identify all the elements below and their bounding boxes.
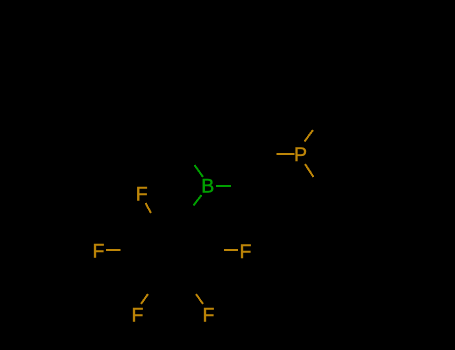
svg-text:F: F	[93, 241, 105, 263]
wire: bond stub F5-C6	[224, 249, 238, 251]
wire: bond stub P-CH2 (down-right)	[305, 164, 314, 177]
wire: bond stub F1-C2	[146, 203, 152, 213]
svg-text:F: F	[203, 305, 215, 327]
svg-text:F: F	[132, 305, 144, 327]
svg-text:F: F	[240, 241, 252, 263]
wire: bond stub F3-C4	[141, 294, 148, 304]
svg-text:B: B	[201, 176, 214, 198]
wire: bond stub F2-C3	[106, 249, 121, 251]
wire: bond stub B-C1 ring (down-left)	[194, 195, 202, 206]
svg-text:F: F	[136, 184, 148, 206]
wire: bond stub P-CH3 (left)	[277, 153, 295, 155]
wire: bond stub P-CH2 (up-right)	[305, 130, 314, 142]
svg-text:P: P	[294, 144, 307, 166]
wire: bond stub F4-C5	[196, 294, 203, 304]
wire: bond stub B-CH2 (right)	[216, 185, 231, 187]
wire: bond stub B-CH3 (up-left)	[195, 165, 204, 177]
